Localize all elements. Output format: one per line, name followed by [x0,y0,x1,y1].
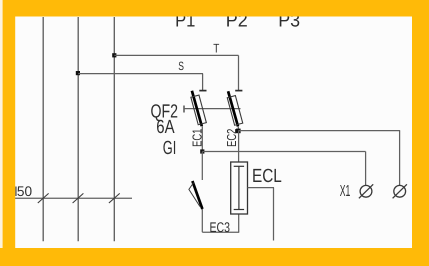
fuse-switch EC1 body [191,95,206,125]
wire net B drop [365,152,367,186]
switch EC3 blade [192,181,202,209]
wire net S drop to EC1 [202,74,204,90]
wire net A to terminal [238,130,400,132]
wire up to ECL bottom [238,214,240,232]
border frame left edge light strip [0,0,3,266]
lamp ECL element top bar [234,165,244,167]
terminal circle X1 [360,185,372,197]
bus line L2 vertical [77,17,79,241]
svg-text:X1: X1 [340,183,351,200]
border frame top [0,0,429,17]
svg-text:6A: 6A [156,117,175,138]
bus line L3 vertical [113,17,115,241]
linkage end tick of QF2 [183,106,185,113]
svg-text:EC3: EC3 [210,219,231,235]
wire net T drop to EC2 [238,55,240,90]
terminal slash X1 [359,184,373,198]
wire net T horizontal [114,54,238,56]
lamp ECL element stem [238,166,240,209]
svg-text:GI: GI [163,138,177,159]
fuse-switch EC1 top contact [199,90,206,92]
wire ECL tap horizontal [248,187,275,189]
wire ECL feed from EC2 node [238,131,240,162]
wire net B to X1 [202,151,365,153]
bus line L1 vertical [42,17,44,241]
fuse-switch EC1 blade [192,91,202,126]
node S junction dot on L2 [76,71,80,75]
lamp ECL element bottom bar [234,209,244,211]
label 50 clipped char [15,187,16,197]
tick on bus L3 [109,193,120,203]
border frame left [0,0,15,266]
linkage bar QF2 [184,108,241,110]
wire ECL tap drop [273,188,275,241]
tick on bus L1 [38,193,49,203]
svg-text:T: T [213,41,219,55]
lamp ECL body rectangle [231,162,248,214]
svg-text:S: S [178,59,184,73]
wire EC2 bottom [237,126,239,131]
dimension line 50 [15,197,132,199]
fuse-switch EC2 top contact [235,90,242,92]
svg-text:50: 50 [17,183,32,199]
border frame right [412,0,429,266]
wire EC1 bottom [201,126,203,151]
wire net S horizontal [78,73,203,75]
svg-text:ECL: ECL [252,166,282,187]
node EC1 bottom junction dot [200,149,204,153]
border frame bottom [0,248,429,266]
tick on bus L2 [73,193,84,203]
switch EC3 body sliver [189,183,200,207]
wire EC3 bottom [201,209,203,232]
wire EC3 to ECL horizontal [202,231,239,233]
wire net A drop [399,131,401,186]
wire EC3 feed [201,152,203,181]
terminal circle right [394,185,406,197]
fuse-switch EC2 body [227,96,242,126]
terminal slash right [393,184,407,198]
node T junction dot on L3 [112,53,116,57]
node EC2 junction dot [236,129,241,134]
fuse-switch EC2 blade [228,91,238,126]
